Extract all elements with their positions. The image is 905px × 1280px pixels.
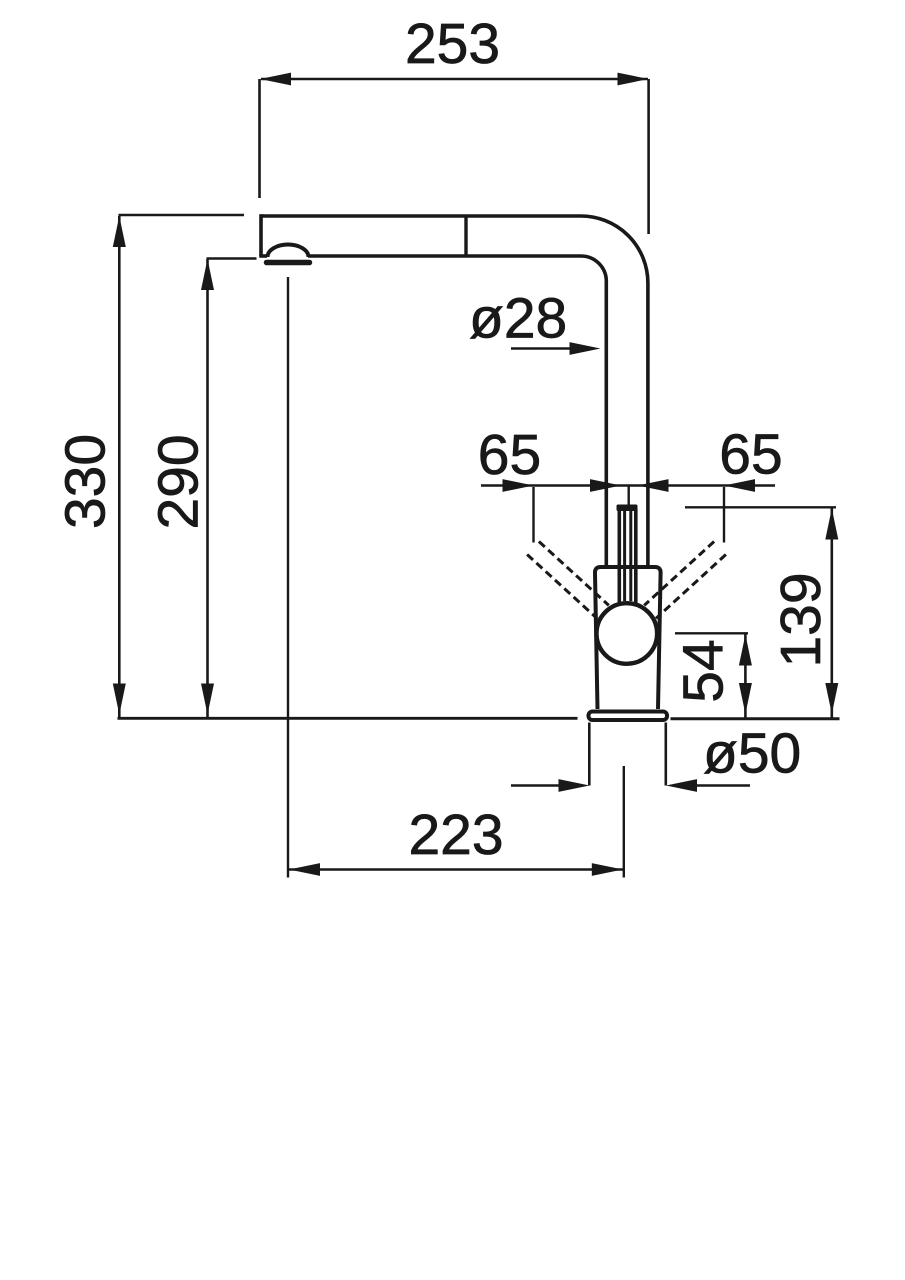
body (trapezoid with rounded top corners)	[595, 567, 661, 709]
right dashed lever position	[644, 542, 726, 619]
lever stem cap (solid)	[617, 505, 638, 512]
svg-text:290: 290	[147, 434, 211, 529]
dim o28 arrow line	[511, 347, 572, 350]
dim 290 top arrow	[201, 259, 214, 290]
dim 139 bottom arrow	[825, 683, 838, 714]
svg-text:65: 65	[719, 423, 782, 487]
dim 65 center-left arrow	[590, 479, 621, 492]
baseline leader left	[118, 717, 578, 720]
svg-text:ø50: ø50	[703, 722, 801, 786]
dim 139 top leader	[685, 506, 836, 508]
base cylinder below flange	[589, 723, 666, 786]
dim 290 top leader	[207, 257, 257, 259]
dim 253 right arrow	[618, 73, 649, 86]
spout bottom edge, inner bend, pipe left edge	[308, 256, 606, 566]
dim 223 left extension line	[287, 277, 289, 878]
svg-text:65: 65	[478, 423, 541, 487]
dim 223 left arrow	[289, 863, 320, 876]
aerator dome	[268, 245, 309, 257]
dim 330 vertical line	[118, 216, 121, 717]
dim 65 center-right arrow	[638, 479, 669, 492]
baseline leader right	[671, 717, 840, 720]
dim 330 top arrow	[113, 216, 126, 247]
dim 65 left extension line	[532, 487, 534, 543]
left dashed lever position	[527, 542, 609, 619]
svg-text:223: 223	[408, 803, 503, 867]
svg-text:ø28: ø28	[469, 287, 567, 351]
dim 65 far-right arrow	[724, 479, 755, 492]
dim o50 right arrow line	[693, 784, 750, 787]
dim 290 bottom arrow	[201, 684, 214, 715]
dim 65 right extension line	[723, 487, 725, 543]
spray head divider line	[464, 216, 467, 256]
dim 139 vertical line	[830, 509, 833, 719]
dim 54 bottom arrow	[739, 683, 752, 714]
dim 65-65 dimension line	[481, 484, 775, 487]
dim 54 top arrow	[739, 635, 752, 666]
dim 253 right corner extension	[647, 79, 650, 234]
dim 253 left arrow	[260, 73, 291, 86]
valve circle	[597, 603, 658, 664]
spout bottom edge left stub	[259, 254, 267, 258]
svg-text:253: 253	[405, 12, 500, 76]
dim 330 top leader	[119, 214, 245, 216]
dim 253 left corner extension	[258, 79, 261, 198]
svg-text:139: 139	[769, 572, 833, 667]
dim o28 arrow	[570, 342, 601, 355]
dim o50 left arrow line	[511, 784, 562, 787]
dim 54 vertical line	[744, 635, 747, 719]
dim o50 left arrow	[559, 779, 590, 792]
dim 54 top leader	[675, 632, 748, 634]
dim 65 center extension line	[628, 486, 630, 506]
aerator base bar	[267, 260, 310, 266]
dim 223 right extension line	[623, 766, 625, 878]
dim 139 top arrow	[825, 509, 838, 540]
dim 223 dimension line	[288, 868, 624, 871]
dim 223 right arrow	[592, 863, 623, 876]
dim 253 dimension line	[261, 78, 648, 81]
lever stem inner rod	[625, 511, 631, 601]
lever stem outer lines	[619, 509, 636, 603]
dim 290 vertical line	[206, 259, 209, 717]
svg-text:54: 54	[672, 639, 736, 702]
base flange	[589, 712, 668, 721]
dim 65 far-left arrow	[503, 479, 534, 492]
dim 330 bottom arrow	[113, 684, 126, 715]
dim o50 right arrow	[666, 779, 697, 792]
faucet spout outline: top edge, outer bend, pipe right edge	[261, 216, 648, 566]
spout left end edge	[259, 214, 263, 256]
svg-text:330: 330	[54, 434, 118, 529]
